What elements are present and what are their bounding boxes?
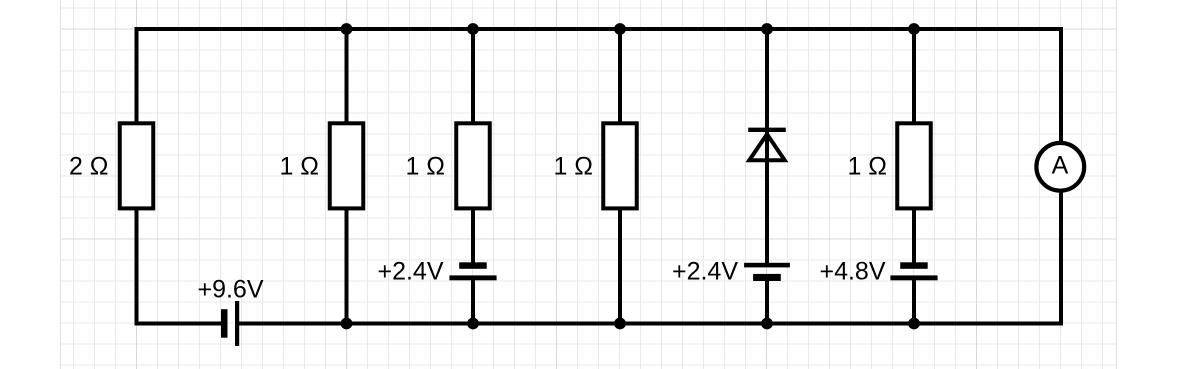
battery V1 +9.6V negative plate (short thick) [221,309,228,338]
svg-text:+2.4V: +2.4V [672,258,738,286]
resistor R5 1ohm [897,123,931,208]
wire: branch 3 vertical top [471,29,475,123]
junction node top branch5 [761,23,773,35]
wire: branch 6 battery to bottom bus [912,280,916,324]
svg-text:+4.8V: +4.8V [819,258,885,286]
wire: left branch top + top bus + right branch top stub [137,29,1062,143]
battery V4 +4.8V negative plate (short thick, top) [900,262,928,269]
grid boundary left [60,0,62,369]
battery V3 +2.4V negative plate (short thick, bottom) [753,274,781,281]
junction node bottom branch5 [761,318,773,330]
ammeter A1 circle [1036,143,1084,191]
svg-text:A: A [1052,152,1069,180]
wire: branch 4 vertical top [618,29,622,123]
wire: branch 4 vertical bottom [618,208,622,323]
junction node bottom branch2 [341,318,353,330]
wire: bottom bus from battery to right + right branch below ammeter [239,191,1061,324]
wire: branch 2 vertical bottom [345,208,349,323]
svg-text:1 Ω: 1 Ω [279,153,319,181]
wire: left branch bottom + bottom bus left segment to battery [137,208,222,323]
junction node top branch6 [908,23,920,35]
battery V1 +9.6V positive plate (long thin) [235,301,239,346]
wire: branch 5 top to diode [765,29,769,160]
wire: branch 6 vertical top [912,29,916,123]
battery V3 +2.4V positive plate (long thin, top) [744,263,790,268]
junction node bottom branch3 [467,318,479,330]
battery V2 +2.4V negative plate (short thick, top) [459,262,487,269]
junction node top branch3 [467,23,479,35]
battery V2 +2.4V positive plate (long thin, bottom) [449,275,496,280]
wire: branch 5 diode to battery [765,160,769,264]
wire: branch 3 resistor to battery [471,208,475,263]
svg-text:2 Ω: 2 Ω [69,153,109,181]
resistor R2 1ohm [330,123,364,208]
grid boundary right [1116,0,1118,369]
wire: branch 3 battery to bottom bus [471,280,475,324]
junction node bottom branch6 [908,318,920,330]
wire: branch 2 vertical top [345,29,349,123]
resistor R3 1ohm [456,123,490,208]
svg-text:1 Ω: 1 Ω [405,153,445,181]
battery V4 +4.8V positive plate (long thin, bottom) [890,275,937,280]
diode D1 cathode bar [748,128,786,132]
svg-text:1 Ω: 1 Ω [553,153,593,181]
wire: branch 5 battery to bottom bus [765,281,769,324]
junction node bottom branch4 [614,318,626,330]
junction node top branch2 [341,23,353,35]
resistor R1 2ohm [120,123,154,208]
resistor R4 1ohm [603,123,637,208]
diode D1 triangle [749,134,784,160]
wire: branch 6 resistor to battery [912,208,916,263]
junction node top branch4 [614,23,626,35]
svg-text:+9.6V: +9.6V [197,276,263,304]
svg-text:+2.4V: +2.4V [377,258,443,286]
svg-text:1 Ω: 1 Ω [847,153,887,181]
